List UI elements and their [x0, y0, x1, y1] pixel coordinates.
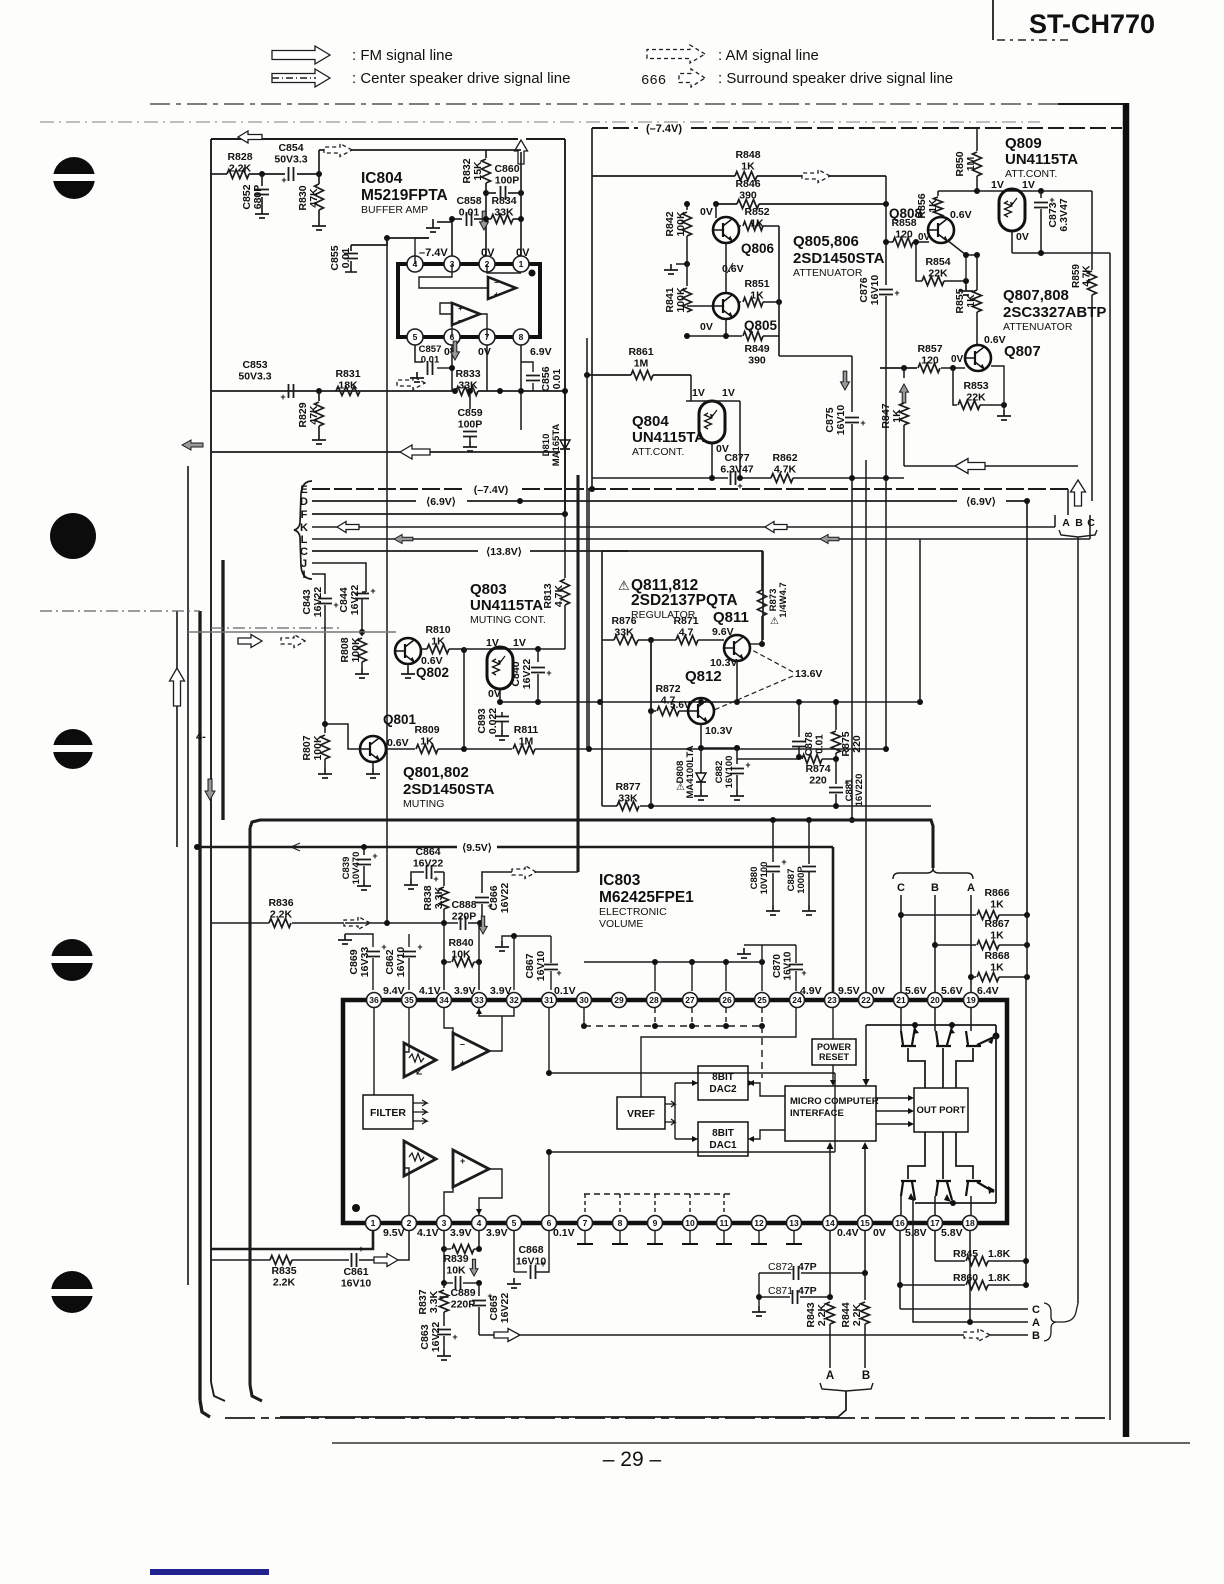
resistor R866: [898, 912, 904, 918]
R836 input row: [211, 922, 269, 924]
Q802 base wire: [362, 631, 395, 633]
svg-text:10K: 10K: [451, 949, 471, 961]
svg-text:C864: C864: [415, 846, 440, 858]
svg-text:16V10: 16V10: [835, 405, 847, 436]
right vertical 1100: [1099, 1332, 1101, 1335]
svg-text:5: 5: [413, 332, 418, 342]
wire pin36 riser: [372, 933, 374, 935]
resistor R832: [485, 150, 487, 158]
svg-text:B: B: [1032, 1330, 1040, 1342]
svg-text:666: 666: [641, 73, 666, 89]
main 1V rail Q809: [976, 129, 978, 151]
svg-text:+: +: [452, 1332, 457, 1342]
hatch arrow on L right: [820, 535, 839, 544]
C87x ground riser: [758, 1273, 760, 1306]
IC804 body: [398, 264, 540, 337]
ground: [318, 768, 332, 778]
resistor R839: [443, 1231, 445, 1249]
regulator box: [602, 550, 763, 552]
svg-text:C888: C888: [451, 899, 476, 911]
svg-text:C889: C889: [450, 1287, 475, 1299]
resistor R873: [758, 590, 767, 616]
svg-text:16V22: 16V22: [499, 1293, 511, 1324]
pin 17: [928, 1216, 943, 1231]
svg-text:2SC3327ABTP: 2SC3327ABTP: [1003, 304, 1106, 321]
svg-text:9: 9: [653, 1218, 658, 1228]
wire pin6 drop: [451, 345, 453, 391]
svg-text:50V3.3: 50V3.3: [274, 154, 307, 166]
registration dot 4: [51, 939, 93, 981]
svg-text:3.9V: 3.9V: [450, 1227, 472, 1239]
arrow on feedback: [400, 445, 430, 459]
amp wires top: [404, 1008, 409, 1052]
svg-text:8BIT: 8BIT: [712, 1128, 734, 1139]
wire mid: [463, 649, 465, 749]
attn left rail: [591, 128, 593, 489]
AB brace bottom: [820, 1383, 873, 1391]
wire 1026 drop: [1025, 977, 1027, 1261]
svg-text:R835: R835: [271, 1265, 296, 1277]
pin 7: [479, 329, 495, 345]
svg-text:2.2K: 2.2K: [273, 1277, 296, 1289]
capacitor C881: [835, 759, 837, 784]
pin 4: [407, 256, 423, 272]
thick drop x250: [248, 828, 251, 1385]
registration dot 5: [51, 1271, 93, 1313]
IC804 block right border: [564, 139, 566, 514]
svg-text:3.3K: 3.3K: [433, 886, 445, 909]
pin 10: [683, 1216, 698, 1231]
svg-text:1M: 1M: [634, 358, 649, 370]
resistor R857: [918, 364, 940, 373]
svg-text:8BIT: 8BIT: [712, 1072, 734, 1083]
svg-text:(–7.4V): (–7.4V): [474, 484, 508, 496]
svg-text:⟨13.8V⟩: ⟨13.8V⟩: [486, 546, 522, 558]
resistor R807: [324, 724, 326, 733]
svg-text:+: +: [737, 481, 742, 491]
pin18 stem down: [969, 1231, 971, 1296]
svg-text:E: E: [300, 484, 307, 496]
FILTER wire: [373, 1008, 375, 1095]
resistor R810: [421, 648, 427, 650]
resistor R859: [1088, 271, 1097, 295]
pin 22: [859, 993, 874, 1008]
out transistor T3 bottom: [966, 1181, 994, 1196]
wire: [318, 150, 320, 174]
svg-text:R854: R854: [925, 256, 950, 268]
svg-text:Q802: Q802: [416, 665, 449, 680]
A row to bracket: [913, 1198, 1028, 1322]
svg-text:47K: 47K: [308, 405, 320, 425]
wire pin8 6.9V drop: [520, 345, 522, 430]
DAC wires: [675, 1082, 698, 1084]
svg-text:31: 31: [544, 995, 554, 1005]
svg-text:22: 22: [861, 995, 871, 1005]
svg-text:47P: 47P: [798, 1261, 817, 1273]
wire R854 loop: [916, 242, 922, 281]
svg-text:10V470: 10V470: [351, 852, 362, 885]
svg-text:9.4V: 9.4V: [383, 985, 405, 997]
transistor Q804: [699, 401, 725, 443]
C866 feed line: [482, 872, 578, 893]
wire Q804 top: [686, 400, 740, 402]
wire 1V node line: [977, 190, 1092, 192]
svg-text:3.9V: 3.9V: [486, 1227, 508, 1239]
resistor R835: [270, 1256, 292, 1265]
resistor R871: [651, 639, 676, 641]
pin22 into MCI: [865, 1025, 867, 1080]
svg-text:0V: 0V: [700, 206, 713, 218]
arrow on B line: [964, 1329, 990, 1342]
vertical rail x601: [600, 539, 602, 551]
svg-text:17: 17: [930, 1218, 940, 1228]
svg-text:9.5V: 9.5V: [838, 985, 860, 997]
svg-text:10.3V: 10.3V: [705, 725, 732, 737]
pin 24: [790, 993, 805, 1008]
IC803 body outline: [343, 1000, 1007, 1223]
capacitor C873: [1040, 191, 1042, 198]
svg-text:C853: C853: [242, 359, 267, 371]
svg-text:6.9V: 6.9V: [530, 346, 552, 358]
pin 5: [407, 329, 423, 345]
wire Q805 out to C875: [779, 355, 820, 357]
transistor Q807: [965, 345, 991, 371]
capacitor C843: [324, 592, 326, 594]
svg-text:M5219FPTA: M5219FPTA: [361, 187, 448, 204]
capacitor C856: [521, 362, 533, 372]
svg-text:Q809: Q809: [1005, 135, 1042, 152]
svg-text:1.8K: 1.8K: [988, 1272, 1011, 1284]
svg-text:0V: 0V: [918, 232, 931, 243]
svg-text:R828: R828: [227, 151, 252, 163]
ground: [355, 668, 369, 678]
bracket to riser: [1056, 1303, 1078, 1322]
resistor R841: [686, 264, 688, 286]
svg-text:33: 33: [474, 995, 484, 1005]
ground: [312, 434, 326, 444]
pin 8: [513, 329, 529, 345]
svg-text:R849: R849: [744, 343, 769, 355]
svg-text:R871: R871: [673, 615, 698, 627]
left rail D (block border): [210, 139, 212, 1382]
C row to bracket: [900, 1308, 1028, 1310]
capacitor C893: [501, 702, 503, 712]
bus K line: [312, 526, 1055, 528]
left rail up-arrow: [170, 668, 185, 706]
node: [483, 190, 489, 196]
pin1 index dot: [529, 270, 536, 277]
arrow on return: [955, 459, 985, 474]
resistor R831: [336, 387, 360, 396]
resistor R856: [938, 190, 977, 192]
pin 29: [612, 993, 627, 1008]
transistor Q809: [999, 189, 1025, 231]
svg-text:⟨6.9V⟩: ⟨6.9V⟩: [966, 496, 996, 508]
svg-text:1K: 1K: [420, 736, 434, 748]
svg-text:ST-CH770: ST-CH770: [1029, 9, 1155, 39]
bus I stub: [312, 574, 325, 592]
wire C865 out: [479, 1334, 1028, 1336]
svg-text:1K: 1K: [891, 409, 903, 423]
svg-text:BUFFER AMP: BUFFER AMP: [361, 204, 428, 216]
pin 1: [366, 1216, 381, 1231]
svg-text:R866: R866: [984, 887, 1009, 899]
svg-text:12: 12: [754, 1218, 764, 1228]
svg-text:+: +: [894, 288, 899, 298]
bus bracket left: [294, 481, 312, 579]
svg-text:5.8V: 5.8V: [941, 1227, 963, 1239]
svg-text:16V33: 16V33: [359, 947, 371, 978]
svg-text:B: B: [931, 882, 939, 894]
svg-text:R846: R846: [735, 178, 760, 190]
out transistor T1 top: [901, 1027, 916, 1046]
svg-text:R809: R809: [414, 724, 439, 736]
legend FM arrow: [272, 46, 330, 64]
Q811 emitter down: [736, 661, 738, 702]
resistor R860: [900, 1284, 965, 1286]
svg-text:⟨9.5V⟩: ⟨9.5V⟩: [462, 842, 492, 854]
arrowhead on bus: [291, 843, 300, 851]
vertical rail x852: [851, 478, 853, 820]
pin 28: [647, 993, 662, 1008]
up arrow ABC: [1071, 480, 1086, 506]
svg-text:33K: 33K: [494, 207, 514, 219]
B riser: [1077, 455, 1079, 466]
MCI-DAC arrows: [748, 1078, 785, 1080]
resistor R830: [318, 174, 320, 184]
svg-text:C868: C868: [518, 1244, 543, 1256]
Q803 output row 0V: [499, 689, 501, 702]
transistor Q805: [713, 293, 739, 319]
wire R846 row: [716, 203, 737, 205]
feedback arrowhead pin4: [476, 1209, 482, 1215]
svg-text:A: A: [967, 882, 975, 894]
svg-text:0.022: 0.022: [487, 708, 499, 734]
resistor R862: [771, 474, 793, 483]
R853 loop: [953, 368, 957, 405]
svg-text:100K: 100K: [312, 735, 324, 761]
ground Q801: [372, 762, 374, 768]
svg-text:100P: 100P: [495, 175, 520, 187]
svg-text:OUT PORT: OUT PORT: [916, 1105, 965, 1116]
hatch arrow pin33: [479, 916, 487, 934]
legend AM arrow: [647, 45, 705, 63]
wire Q807 emitter: [978, 371, 1004, 405]
svg-text:MA165TA: MA165TA: [551, 424, 562, 467]
svg-text:32: 32: [509, 995, 519, 1005]
svg-text:13: 13: [789, 1218, 799, 1228]
bottom bus: [915, 1202, 996, 1204]
Q812 emitter: [700, 724, 702, 748]
wire 1V row: [464, 648, 565, 650]
svg-text:100K: 100K: [350, 637, 362, 663]
arrow: [494, 1329, 520, 1342]
resistor R855: [976, 255, 978, 290]
svg-text:16V10: 16V10: [341, 1278, 372, 1290]
svg-text:16V22: 16V22: [430, 1322, 442, 1353]
capacitor C870: [762, 944, 796, 946]
wire long riser to IC803 pin35: [386, 238, 388, 923]
pin16 stem down: [899, 1231, 901, 1309]
svg-text:R851: R851: [744, 278, 769, 290]
svg-text:100K: 100K: [675, 287, 687, 313]
svg-text:7: 7: [583, 1218, 588, 1228]
svg-text:R868: R868: [984, 950, 1009, 962]
svg-text:–: –: [458, 316, 463, 325]
svg-text:ATT.CONT.: ATT.CONT.: [632, 446, 684, 458]
registration dot 1: [53, 157, 95, 199]
svg-text:0.1V: 0.1V: [554, 985, 576, 997]
wire pin34 riser: [443, 962, 445, 990]
bus F line: [312, 513, 565, 515]
resistor R840: [443, 923, 445, 962]
svg-text:: Center speaker drive signal: : Center speaker drive signal line: [352, 70, 570, 87]
svg-text:MUTING: MUTING: [403, 798, 444, 810]
svg-text:19: 19: [966, 995, 976, 1005]
capacitor C864: [411, 872, 424, 879]
svg-text:R867: R867: [984, 918, 1009, 930]
svg-text:0.6V: 0.6V: [387, 737, 409, 749]
arrow on input: [344, 917, 370, 930]
wire pin35 riser: [408, 933, 410, 935]
svg-text:0V: 0V: [478, 346, 491, 358]
svg-text:16V22: 16V22: [312, 587, 324, 618]
svg-text:18K: 18K: [338, 380, 358, 392]
ground mid: [676, 263, 687, 265]
wire attenuator out: [779, 355, 820, 357]
svg-text:R877: R877: [615, 781, 640, 793]
svg-text:0.01: 0.01: [551, 369, 563, 390]
svg-text:21: 21: [896, 995, 906, 1005]
svg-text:Q812: Q812: [685, 668, 722, 685]
svg-text:24: 24: [792, 995, 802, 1005]
out transistor T2 top: [936, 1027, 952, 1046]
VREF box: [617, 1097, 665, 1129]
ABC brace top: [893, 868, 973, 879]
svg-text:Q804: Q804: [632, 413, 669, 430]
bottom thin line: [332, 1442, 1190, 1444]
svg-text:2.2K: 2.2K: [270, 909, 293, 921]
pin15 stem down: [864, 1231, 866, 1273]
svg-text:Q801,802: Q801,802: [403, 764, 469, 781]
svg-text:C858: C858: [456, 195, 481, 207]
Q801 base wires: [325, 724, 360, 749]
out transistor T1 bottom: [901, 1181, 916, 1200]
svg-text:R858: R858: [891, 217, 916, 229]
svg-text:C: C: [897, 882, 905, 894]
svg-text:R845: R845: [953, 1248, 978, 1260]
svg-text:L: L: [301, 534, 308, 546]
wire 651 drop: [650, 640, 652, 806]
node: [316, 171, 322, 177]
svg-text:–: –: [494, 278, 499, 287]
svg-text:4.7K: 4.7K: [774, 464, 797, 476]
wire R857 row: [880, 367, 917, 369]
8BIT DAC2 box: [698, 1066, 748, 1100]
svg-text:0.1V: 0.1V: [553, 1227, 575, 1239]
left dash-dot stub: [40, 610, 200, 612]
svg-text:16V10: 16V10: [783, 951, 794, 980]
svg-text:18: 18: [965, 1218, 975, 1228]
arrow on K right: [765, 522, 787, 533]
svg-text:R831: R831: [335, 368, 360, 380]
svg-text:R872: R872: [655, 683, 680, 695]
pin 32: [507, 993, 522, 1008]
svg-text:10: 10: [685, 1218, 695, 1228]
fm arrow on line: [397, 377, 425, 390]
wire pin7 drop: [486, 345, 488, 391]
Q812 collector up: [708, 702, 710, 703]
node on R836 line: [384, 920, 390, 926]
transistor Q801: [360, 736, 386, 762]
svg-text:390: 390: [739, 190, 757, 202]
hatch arrow on L: [394, 535, 413, 544]
dashed bus below pins 25-28: [584, 1025, 762, 1027]
diode D808: [700, 748, 702, 773]
svg-text:120: 120: [921, 355, 939, 367]
svg-text:1V: 1V: [722, 387, 735, 399]
svg-text:Q807: Q807: [1004, 343, 1041, 360]
svg-text:16V22: 16V22: [349, 585, 361, 616]
wire emitter row: [701, 747, 737, 749]
svg-text:FILTER: FILTER: [370, 1107, 406, 1119]
fm arrow: [324, 144, 352, 157]
ground: [965, 281, 967, 285]
fm arrow mid-left: [238, 635, 262, 648]
wire 1027 down: [1026, 915, 1028, 977]
wire Q806 collector: [715, 204, 717, 218]
svg-text:4-: 4-: [196, 731, 206, 743]
vertical rail x589: [588, 489, 590, 749]
svg-text:220: 220: [809, 775, 827, 787]
vertical rail x565: [564, 649, 566, 672]
svg-text:1K: 1K: [431, 636, 445, 648]
resistor R876: [602, 639, 614, 641]
svg-text:–7.4V: –7.4V: [419, 247, 448, 259]
pin1 thick hook: [211, 1231, 373, 1249]
svg-text:Q806: Q806: [741, 241, 775, 256]
Q804 right 1V drop: [739, 401, 741, 478]
base wire Q806: [687, 244, 713, 246]
resistor R854: [922, 277, 944, 286]
pin 1: [513, 256, 529, 272]
right vertical to bottom bus: [995, 1036, 997, 1203]
svg-text:R811: R811: [514, 724, 539, 736]
POWER RESET box: [812, 1039, 856, 1065]
svg-text:C871: C871: [768, 1285, 793, 1297]
A stem: [970, 895, 972, 993]
pin 6: [444, 329, 460, 345]
svg-text:+: +: [370, 586, 375, 596]
svg-text:0V: 0V: [951, 354, 964, 365]
svg-text:6.3V47: 6.3V47: [720, 464, 753, 476]
wire 1110 drop: [1109, 253, 1111, 1420]
svg-text:DAC2: DAC2: [709, 1084, 737, 1095]
registration dot 2: [50, 513, 96, 559]
svg-text:35: 35: [404, 995, 414, 1005]
pin ground stubs: [584, 1231, 586, 1244]
pin 23: [825, 993, 840, 1008]
resistor R845: [935, 1260, 965, 1262]
svg-text:26: 26: [722, 995, 732, 1005]
AB common stem: [280, 1391, 846, 1417]
svg-text:+: +: [458, 304, 463, 313]
svg-text:Q805,806: Q805,806: [793, 233, 859, 250]
lower dashed bus in IC: [584, 1193, 730, 1195]
pin 7: [578, 1216, 593, 1231]
svg-text:2SD1450STA: 2SD1450STA: [793, 250, 885, 267]
node: [316, 388, 322, 394]
